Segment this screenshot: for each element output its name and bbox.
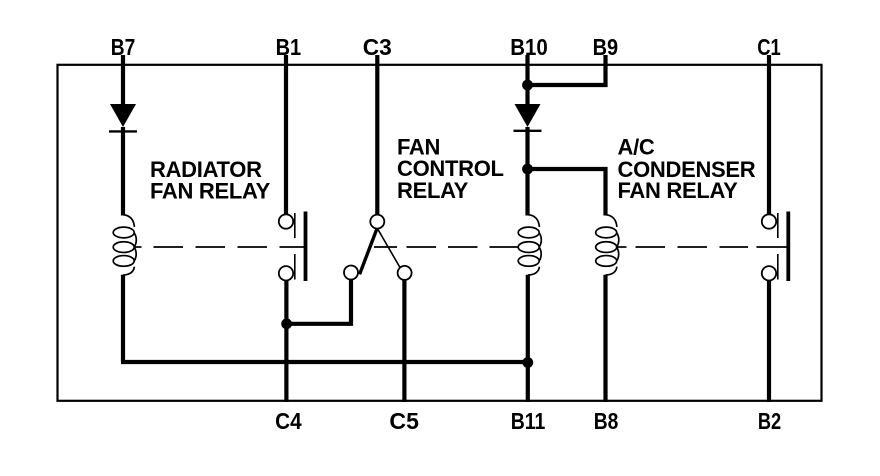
wire diode D2 to fan control coil	[525, 127, 529, 216]
contact radiator fan relay	[279, 212, 306, 282]
wire diode D1 to radiator coil	[121, 127, 125, 216]
coil A/C condenser fan relay	[596, 215, 619, 275]
diode D1	[109, 104, 137, 131]
link solid into A/C contact bar	[757, 246, 789, 248]
svg-text:FAN RELAY: FAN RELAY	[150, 178, 271, 203]
wire A/C coil to B8	[603, 275, 607, 402]
svg-text:FAN RELAY: FAN RELAY	[618, 178, 739, 203]
wire C5 from switch NO	[402, 280, 406, 402]
wire B9 jumper	[528, 55, 606, 85]
link dash through switch	[374, 246, 397, 248]
link tick at radiator coil	[134, 246, 142, 248]
link dashed line switch to fan control coil	[407, 246, 519, 248]
svg-text:B1: B1	[276, 34, 302, 60]
link tick at A/C coil	[616, 246, 627, 248]
switch fan control relay (SPDT)	[344, 215, 412, 280]
wire B1 to contact	[284, 55, 288, 215]
relay box housing outline	[58, 65, 822, 401]
diode D2	[514, 104, 542, 131]
label A/C CONDENSER FAN RELAY	[618, 134, 756, 203]
wire B7 stub to diode D1	[121, 55, 125, 105]
wire C1 to contact	[767, 55, 771, 214]
svg-text:C5: C5	[389, 408, 419, 434]
label RADIATOR FAN RELAY	[150, 157, 271, 203]
wire radiator coil to bottom bus	[121, 275, 125, 362]
svg-text:B8: B8	[594, 408, 619, 434]
label FAN CONTROL RELAY	[397, 135, 504, 203]
svg-text:C4: C4	[275, 408, 302, 434]
node B10/AC-feed junction	[522, 164, 533, 175]
wire contact to C4	[284, 280, 288, 402]
wire fan control coil to B11	[526, 275, 530, 402]
svg-text:A/C: A/C	[618, 134, 655, 159]
wire B10 to diode D2	[525, 55, 529, 105]
wire bottom bus to B11 column	[121, 360, 529, 364]
node B10/B9 junction	[522, 80, 533, 91]
contact A/C condenser fan relay	[762, 212, 789, 282]
wire switch NC to C4 node	[288, 279, 351, 324]
link dashed line A/C coil to contact	[636, 246, 749, 248]
wire C3 to switch common	[375, 55, 379, 215]
svg-text:B2: B2	[758, 408, 781, 434]
svg-text:RELAY: RELAY	[397, 178, 469, 203]
coil fan control relay	[518, 215, 541, 275]
coil radiator fan relay	[113, 215, 136, 275]
svg-text:B11: B11	[511, 408, 546, 434]
node bus/B11 junction	[522, 357, 533, 368]
wire A/C coil feed	[528, 169, 606, 216]
wire contact to B2	[767, 280, 771, 402]
link dashed line radiator coil to contact	[154, 246, 306, 248]
node C4/switch-NC junction	[281, 318, 292, 329]
